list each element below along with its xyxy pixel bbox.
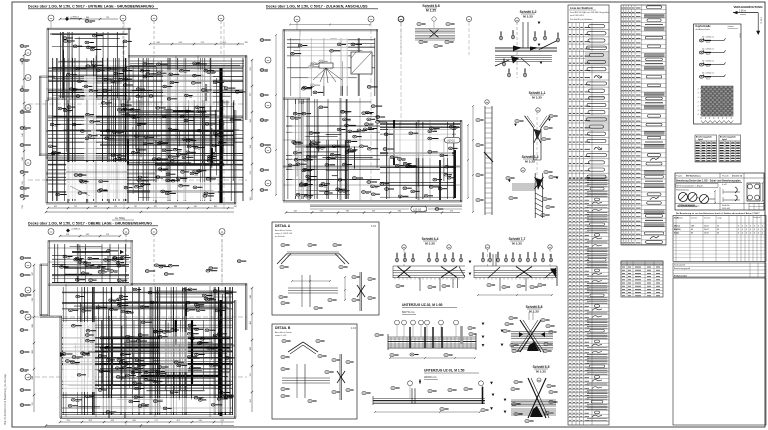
svg-text:4: 4 [762, 233, 763, 235]
svg-text:4: 4 [754, 229, 755, 231]
beam UZ-03 vertical elevation [472, 100, 493, 215]
small summary tables [695, 135, 741, 162]
beam UNTERZUG UZ-02 elevation [375, 303, 485, 359]
svg-text:4: 4 [762, 226, 763, 228]
steel bar schedule table 1 [568, 5, 609, 425]
svg-text:223: 223 [221, 420, 224, 422]
svg-text:4: 4 [698, 97, 699, 99]
svg-text:688: 688 [174, 206, 177, 208]
svg-text:648: 648 [250, 295, 252, 298]
plan 3 rebar labels [288, 43, 459, 198]
svg-text:4: 4 [758, 233, 759, 235]
section Schnitt 3-2 [495, 10, 559, 78]
svg-text:Schnitt 3-2: Schnitt 3-2 [520, 10, 537, 14]
plan 1 grid bubbles top [48, 15, 224, 57]
plan 1 interior walls thick [128, 68, 224, 203]
svg-text:611: 611 [54, 206, 57, 208]
svg-text:912: 912 [250, 67, 252, 70]
svg-text:4: 4 [698, 106, 699, 108]
svg-text:Schnitt 4-4: Schnitt 4-4 [422, 237, 439, 241]
svg-text:D1-OG 12: D1-OG 12 [732, 176, 743, 178]
svg-text:Decke über 1.OG, M 1:50, C 50/: Decke über 1.OG, M 1:50, C 50/17 - OBERE… [28, 222, 152, 226]
svg-text:164: 164 [250, 145, 252, 148]
plan 3 title: Decke ueber 1.OG Zulagen Anschluss [266, 5, 378, 9]
svg-text:DETAIL B: DETAIL B [275, 326, 291, 330]
svg-text:568: 568 [250, 119, 252, 122]
svg-text:Würfelprüfung: Würfelprüfung [676, 190, 689, 192]
svg-text:894: 894 [223, 42, 226, 44]
svg-text:4: 4 [750, 226, 751, 228]
svg-text:Liste der Stabform: Liste der Stabform [570, 6, 594, 10]
svg-text:533: 533 [179, 42, 182, 44]
svg-text:Stahl BSt 500 S(A) nach DIN 48: Stahl BSt 500 S(A) nach DIN 488 / Bieger… [570, 11, 609, 14]
svg-text:1:10: 1:10 [351, 326, 357, 330]
plan 1 left margin labels [20, 45, 31, 198]
plan 2 interior walls thick [141, 300, 222, 416]
plan 1 room interior sparse lines [66, 162, 127, 199]
steel bar schedule table 2 [621, 5, 666, 245]
svg-text:M 1:25: M 1:25 [512, 242, 522, 246]
svg-text:Decke über 1.OG, M 1:50, C 50/: Decke über 1.OG, M 1:50, C 50/17 - ZULAG… [266, 5, 368, 9]
svg-text:86: 86 [691, 233, 693, 235]
svg-text:M 1:25: M 1:25 [426, 9, 436, 13]
svg-text:unten 1.OG/2.OG: unten 1.OG/2.OG [275, 232, 292, 235]
svg-text:50 x ø8/20 cm: 50 x ø8/20 cm [702, 36, 714, 38]
svg-text:Gewicht: Gewicht [704, 217, 711, 220]
svg-text:4: 4 [738, 233, 739, 235]
svg-text:754: 754 [22, 205, 24, 208]
svg-text:20/90 cm: 20/90 cm [424, 375, 437, 379]
plot stamp text [4, 374, 7, 425]
Verlegerichtung arrows [733, 5, 763, 35]
svg-text:247: 247 [234, 206, 237, 208]
svg-text:+2.805 m: +2.805 m [71, 229, 80, 231]
svg-text:Anschluss Decke: Anschluss Decke [275, 331, 293, 334]
plan 2 room whitespace [63, 250, 230, 412]
svg-text:675: 675 [320, 211, 323, 213]
plan 1 extra wall lines [46, 100, 108, 203]
plan 3 grid bubbles [265, 16, 404, 200]
svg-text:4: 4 [750, 233, 751, 235]
plan 2 title: Decke ueber 1.OG obere Lage [28, 216, 158, 226]
svg-text:674: 674 [450, 211, 453, 213]
detail B box [272, 324, 357, 419]
svg-text:4: 4 [754, 226, 755, 228]
section Schnitt 8-8 top [398, 4, 471, 55]
svg-text:239: 239 [32, 298, 34, 301]
svg-text:50 x ø8/20 cm: 50 x ø8/20 cm [702, 73, 714, 75]
beam UNTERZUG UZ-01 elevation [362, 369, 495, 414]
svg-text:4: 4 [738, 226, 739, 228]
svg-text:4: 4 [758, 229, 759, 231]
svg-text:4: 4 [746, 226, 747, 228]
section Schnitt 8-8 lower [501, 305, 557, 353]
section Schnitt 7-7 [474, 237, 557, 296]
svg-text:Schnitt 7-7: Schnitt 7-7 [509, 237, 526, 241]
svg-text:Matten: Matten [674, 225, 681, 228]
svg-text:Stäbe: Stäbe [674, 232, 679, 235]
svg-text:627: 627 [154, 206, 157, 208]
svg-text:nach DIN 1045-1: nach DIN 1045-1 [570, 15, 584, 17]
svg-text:Statik-Nr:: Statik-Nr: [722, 204, 730, 207]
svg-text:M 1:25: M 1:25 [529, 310, 539, 314]
svg-text:Pos.1: Pos.1 [706, 78, 710, 80]
svg-text:4: 4 [742, 226, 743, 228]
svg-text:224: 224 [22, 109, 24, 112]
svg-text:466: 466 [250, 321, 252, 324]
svg-text:50x50: 50x50 [739, 33, 741, 38]
svg-text:Decke über 1.OG, M 1:50, C 50/: Decke über 1.OG, M 1:50, C 50/17 - UNTER… [28, 5, 154, 9]
svg-text:Pos.1: Pos.1 [706, 54, 710, 56]
svg-text:640: 640 [157, 42, 160, 44]
svg-text:Schnitt 3-3: Schnitt 3-3 [522, 155, 539, 159]
svg-text:44: 44 [717, 233, 719, 235]
plan 3 rebar mesh upper [287, 38, 375, 96]
svg-text:408: 408 [22, 85, 24, 88]
svg-text:weitere: weitere [728, 25, 734, 28]
svg-text:im Schnitt: im Schnitt [275, 235, 285, 238]
svg-text:20x17: 20x17 [704, 226, 709, 228]
svg-text:4: 4 [698, 88, 699, 90]
plan 1 main slab outline [46, 56, 247, 205]
svg-text:DETAIL A: DETAIL A [275, 224, 291, 228]
svg-text:344: 344 [22, 157, 24, 160]
svg-text:Projekt:: Projekt: [676, 175, 683, 178]
svg-text:0.50 m: 0.50 m [760, 17, 762, 24]
svg-text:4: 4 [758, 226, 759, 228]
svg-text:Prüfvermerke: Prüfvermerke [674, 276, 688, 278]
svg-text:188: 188 [691, 226, 694, 228]
svg-text:698: 698 [32, 376, 34, 379]
plan 2 dark cluster left [60, 352, 108, 359]
section Schnitt 3-3 [506, 155, 559, 218]
svg-text:339: 339 [86, 234, 89, 236]
svg-text:737: 737 [250, 93, 252, 96]
svg-text:M 1:25: M 1:25 [536, 370, 546, 374]
svg-text:529: 529 [22, 181, 24, 184]
plan 3 interior walls [380, 120, 460, 200]
plan 2 main slab outline [40, 284, 247, 419]
plan 3 outline [283, 30, 462, 203]
svg-text:Die Bewehrung ist vor dem Beto: Die Bewehrung ist vor dem Betonieren dur… [676, 212, 760, 215]
svg-text:4: 4 [738, 229, 739, 231]
svg-text:421: 421 [177, 420, 180, 422]
plan 1 grid dashed lines [28, 22, 247, 210]
material table right [673, 216, 766, 262]
plan 3 dimension lines [275, 24, 469, 214]
svg-text:1:10: 1:10 [371, 224, 377, 228]
empty approval field [673, 278, 766, 425]
svg-text:M 1:25: M 1:25 [532, 96, 542, 100]
svg-text:259: 259 [67, 420, 70, 422]
svg-text:648: 648 [94, 206, 97, 208]
svg-text:UNTERZUG UZ-02, M 1:50: UNTERZUG UZ-02, M 1:50 [402, 303, 443, 307]
svg-text:378: 378 [66, 234, 69, 236]
plan 1 room whitespace [66, 70, 218, 200]
plan 1 rebar mesh body [48, 58, 244, 201]
svg-text:46: 46 [717, 229, 719, 231]
svg-text:Position: Position [677, 217, 683, 220]
svg-text:835: 835 [214, 206, 217, 208]
svg-text:4: 4 [698, 93, 699, 95]
svg-text:4: 4 [750, 229, 751, 231]
svg-text:844: 844 [86, 17, 89, 19]
svg-text:Bewehrung Decke über 1.OG -: Bewehrung Decke über 1.OG - Schal- und B… [676, 181, 741, 183]
section Schnitt 5-5 [504, 365, 558, 423]
mesh grid pattern [698, 86, 734, 123]
svg-text:Pos Stk Ø L(m) Stabform: Pos Stk Ø L(m) Stabform [570, 18, 593, 21]
svg-text:Länge: Länge [717, 218, 722, 220]
svg-text:Schnitt 8-8: Schnitt 8-8 [422, 4, 439, 8]
plan 2 grid dashed lines [28, 232, 247, 425]
svg-text:4: 4 [742, 233, 743, 235]
plan 1 rebar mesh upper-left block [52, 32, 127, 98]
svg-text:Statik geprüft: Statik geprüft [674, 264, 686, 267]
svg-text:ca. 60kg: ca. 60kg [115, 216, 125, 220]
svg-text:M 1:25: M 1:25 [523, 15, 533, 19]
plan 3 left margin labels [260, 39, 271, 192]
svg-text:213: 213 [201, 42, 204, 44]
svg-text:898: 898 [32, 324, 34, 327]
svg-text:747: 747 [134, 206, 137, 208]
svg-text:985: 985 [346, 211, 349, 213]
svg-text:516: 516 [199, 420, 202, 422]
plan 2 grid bubbles left [25, 262, 31, 380]
svg-text:Stückzahl: Stückzahl [753, 216, 761, 219]
svg-text:4 ø12: 4 ø12 [722, 184, 727, 186]
stamp block [675, 173, 764, 215]
plan 3 room whitespace [292, 36, 452, 196]
svg-text:2013-042: 2013-042 [722, 208, 730, 210]
svg-text:50 x ø8/20 cm: 50 x ø8/20 cm [702, 60, 714, 62]
svg-text:16x27: 16x27 [704, 233, 709, 235]
svg-text:Schnitt 8-8: Schnitt 8-8 [526, 305, 543, 309]
svg-text:213: 213 [250, 171, 252, 174]
svg-text:Schnitt 1-1: Schnitt 1-1 [529, 91, 546, 95]
plan 2 grid bubbles top [48, 229, 225, 286]
approval rows [673, 263, 766, 278]
svg-text:723: 723 [106, 17, 109, 19]
plan 1 upper-left room outline [47, 28, 131, 101]
svg-text:116: 116 [114, 206, 117, 208]
plan 3 interior lines [283, 30, 460, 201]
svg-text:148: 148 [22, 133, 24, 136]
svg-text:Pos.1: Pos.1 [706, 66, 710, 68]
svg-text:60/70 cm: 60/70 cm [402, 310, 415, 314]
svg-text:Anschluss Decke: Anschluss Decke [275, 229, 293, 232]
svg-text:UNTERZUG UZ-01, M 1:50: UNTERZUG UZ-01, M 1:50 [424, 369, 465, 373]
plan 1 rebar labels [49, 34, 246, 197]
svg-text:312: 312 [250, 373, 252, 376]
plan 1 title: Decke ueber 1.OG untere Lage [28, 5, 158, 9]
plan 2 dimension lines [32, 234, 253, 427]
plan 3 bottom beam UZ-01 strip [310, 205, 462, 212]
svg-text:4: 4 [754, 233, 755, 235]
plan 2 rebar labels [60, 250, 247, 414]
svg-text:211: 211 [32, 402, 34, 405]
svg-text:66: 66 [691, 229, 693, 231]
plan 3 rebar mesh body [286, 99, 456, 199]
svg-text:50 x ø8/20 cm: 50 x ø8/20 cm [702, 48, 714, 50]
svg-text:888: 888 [250, 347, 252, 350]
plan 3 leader fan [308, 58, 348, 86]
svg-text:208: 208 [89, 420, 92, 422]
svg-text:857: 857 [294, 211, 297, 213]
svg-text:Pos.1: Pos.1 [706, 42, 710, 44]
plan 2 left wing outline [40, 264, 48, 316]
plan 2 block dark details [64, 250, 124, 268]
mesh schedule box [694, 24, 742, 124]
svg-text:661: 661 [66, 17, 69, 19]
svg-text:560: 560 [133, 420, 136, 422]
plan 2 rebar mesh body [62, 287, 233, 415]
svg-text:711: 711 [74, 206, 77, 208]
svg-text:4: 4 [698, 101, 699, 103]
svg-text:gez. 21.03.13 Mustermann: gez. 21.03.13 Mustermann [677, 205, 700, 208]
svg-text:956: 956 [250, 197, 252, 200]
svg-text:888: 888 [32, 350, 34, 353]
plan 2 interior partition lines [48, 248, 235, 418]
svg-text:Bewehrung geprüft: Bewehrung geprüft [674, 267, 690, 270]
svg-text:343: 343 [22, 61, 24, 64]
svg-text:als Abstandhalter: als Abstandhalter [696, 28, 711, 31]
svg-text:M 1:25: M 1:25 [425, 242, 435, 246]
plan 3 beam label UZ-02 [445, 137, 461, 143]
svg-text:307: 307 [32, 272, 34, 275]
svg-text:4: 4 [746, 229, 747, 231]
svg-text:20x77: 20x77 [704, 229, 709, 231]
plan 1 grid bubbles left [25, 50, 31, 166]
svg-text:kg/m3: kg/m3 [722, 139, 727, 141]
svg-text:UZ-01: UZ-01 [413, 208, 421, 212]
svg-text:Durchm.: Durchm. [691, 217, 698, 220]
svg-text:Plan-Nr:: Plan-Nr: [722, 176, 730, 178]
svg-text:762: 762 [424, 211, 427, 213]
detail A box [272, 222, 379, 315]
svg-text:562: 562 [250, 399, 252, 402]
svg-text:Plot: 21.03.2013 10:12 Bewehr: Plot: 21.03.2013 10:12 Bewehrung_D1-OG.d… [4, 374, 7, 425]
svg-text:unten 1.OG: unten 1.OG [275, 334, 287, 337]
svg-text:kg/m3: kg/m3 [698, 139, 703, 141]
svg-text:BV Wohnhaus: BV Wohnhaus [686, 176, 702, 178]
svg-text:395: 395 [245, 42, 248, 44]
plan 1 interior partition lines [46, 56, 244, 204]
svg-text:BSt500: BSt500 [674, 228, 680, 231]
svg-text:329: 329 [372, 211, 375, 213]
plan 2 upper-left room outline [48, 241, 133, 317]
plan 1 left wing outline [40, 76, 56, 156]
svg-text:1.00 m: 1.00 m [739, 11, 746, 13]
small table below table 2 [621, 261, 663, 297]
svg-text:4: 4 [762, 229, 763, 231]
svg-text:4: 4 [698, 110, 699, 112]
svg-text:4: 4 [698, 114, 699, 116]
svg-text:176: 176 [106, 234, 109, 236]
svg-text:Schnitt 5-5: Schnitt 5-5 [533, 365, 550, 369]
svg-text:VERLEGERICHTUNG: VERLEGERICHTUNG [734, 5, 764, 9]
svg-text:M. Bewegungsfugen n. Angabe: M. Bewegungsfugen n. Angabe [677, 184, 703, 187]
svg-text:M 1:25: M 1:25 [525, 160, 535, 164]
svg-text:860: 860 [398, 211, 401, 213]
section Schnitt 4-4 [393, 237, 471, 291]
svg-text:4: 4 [742, 229, 743, 231]
svg-text:Kopfschnalle: Kopfschnalle [696, 25, 712, 28]
plan 3 stair opening [351, 52, 372, 74]
svg-text:577: 577 [155, 420, 158, 422]
plan 2 rebar mesh upper-left block [52, 244, 129, 283]
plan 1 dimension lines [22, 17, 253, 213]
svg-text:347: 347 [194, 206, 197, 208]
svg-text:45: 45 [717, 226, 719, 228]
svg-text:4: 4 [746, 233, 747, 235]
section Schnitt 1-1 [514, 91, 558, 185]
plan 2 left margin labels [20, 257, 31, 407]
svg-text:UZ-02: UZ-02 [447, 139, 455, 143]
svg-text:268: 268 [111, 420, 114, 422]
